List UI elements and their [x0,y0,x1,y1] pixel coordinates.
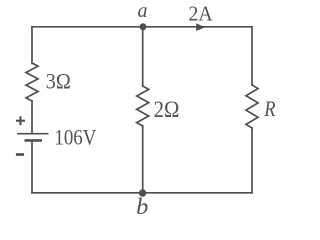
wire middle branch lower [142,126,144,193]
battery V1 106V negative plate [25,139,43,142]
current arrow 2A on top wire [196,23,205,31]
svg-text:106V: 106V [54,125,96,150]
node a junction dot [140,23,147,30]
svg-text:2Ω: 2Ω [154,97,180,122]
battery V1 106V positive plate [17,133,49,135]
svg-text:2A: 2A [189,1,214,25]
resistor R1 3ohm zigzag [26,63,38,101]
wire right rail upper [251,27,253,85]
wire bottom rail [32,192,252,194]
resistor R2 2ohm zigzag [137,86,149,126]
battery plus sign [16,116,25,125]
svg-text:3Ω: 3Ω [46,69,71,94]
svg-text:b: b [136,194,148,219]
wire left rail below battery [31,141,33,193]
wire left rail upper segment [31,27,33,64]
wire middle branch upper [142,27,144,86]
resistor R zigzag [246,85,258,128]
battery minus sign [16,153,24,156]
svg-text:R: R [263,96,276,121]
wire left rail between resistor and battery [31,101,33,134]
svg-text:a: a [138,0,148,22]
node b junction dot [139,189,146,196]
wire right rail lower [251,128,253,193]
wire top rail a to corners [32,26,252,28]
